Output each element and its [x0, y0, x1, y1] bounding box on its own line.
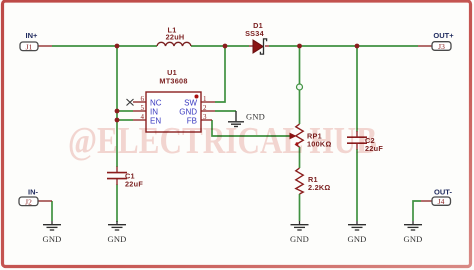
- svg-text:@ELECTRICAL HUB: @ELECTRICAL HUB: [68, 120, 377, 162]
- capacitor C1: [107, 167, 143, 189]
- svg-text:6: 6: [141, 95, 145, 103]
- pin stubs (dark red): [38, 46, 432, 201]
- svg-text:J1: J1: [26, 42, 33, 51]
- junction at EN pin branch: [115, 118, 120, 123]
- wire J4 to ground: [413, 201, 421, 221]
- connector J4: [432, 188, 452, 207]
- svg-text:1: 1: [203, 95, 207, 103]
- svg-text:J2: J2: [25, 197, 32, 206]
- inductor L1: [157, 26, 191, 47]
- ground symbol (C1): [108, 221, 126, 230]
- wire RP1 branch: [299, 46, 301, 124]
- svg-text:GND: GND: [107, 234, 126, 244]
- ground symbol (J2): [43, 221, 61, 230]
- wire to IN pin: [117, 110, 133, 112]
- connector J1: [20, 31, 38, 51]
- svg-text:IN+: IN+: [26, 31, 39, 40]
- ground symbol (C2): [348, 221, 366, 230]
- svg-text:SW: SW: [184, 99, 197, 108]
- ground symbol (J4): [404, 221, 422, 230]
- svg-text:NC: NC: [150, 99, 162, 108]
- svg-text:5: 5: [141, 104, 145, 112]
- svg-text:2: 2: [203, 104, 207, 112]
- wire main top rail: [52, 46, 421, 222]
- ground symbol (U1 pin 2): [228, 111, 244, 127]
- svg-text:22uF: 22uF: [125, 180, 143, 189]
- svg-text:GND: GND: [179, 108, 197, 117]
- svg-text:22uH: 22uH: [166, 33, 185, 42]
- junction at IN pin branch: [115, 109, 120, 114]
- wire FB to RP1 wiper: [212, 120, 290, 136]
- svg-text:GND: GND: [347, 234, 366, 244]
- junction at L1 / SW branch: [223, 44, 228, 49]
- junction at input rail / C1 branch: [115, 44, 120, 49]
- svg-text:IN: IN: [150, 108, 158, 117]
- junction at output rail / RP1 branch: [297, 44, 302, 49]
- connector J2: [19, 188, 39, 207]
- svg-text:2.2KΩ: 2.2KΩ: [308, 183, 331, 192]
- svg-text:OUT-: OUT-: [434, 188, 452, 197]
- ground symbol (R1): [291, 221, 309, 230]
- resistor R1: [296, 168, 331, 194]
- svg-text:GND: GND: [42, 234, 61, 244]
- connector J3: [432, 31, 454, 51]
- wire SW to top rail: [215, 46, 225, 102]
- svg-text:J4: J4: [438, 197, 445, 206]
- svg-text:GND: GND: [403, 234, 422, 244]
- wire C2 branch: [356, 46, 358, 132]
- capacitor C2: [347, 131, 383, 153]
- IC U1 MT3608: [127, 68, 208, 132]
- svg-text:OUT+: OUT+: [433, 31, 454, 40]
- diode D1 SS34: [245, 21, 267, 54]
- svg-text:SS34: SS34: [245, 29, 265, 38]
- svg-text:GND: GND: [290, 234, 309, 244]
- potentiometer RP1: [290, 84, 332, 149]
- wire to EN pin: [117, 119, 133, 121]
- wire left vertical (IN net): [116, 46, 118, 167]
- svg-text:J3: J3: [438, 42, 445, 51]
- wire GND pin to ground: [215, 110, 236, 112]
- no-connect X on pin 6: [127, 99, 134, 106]
- junction at output rail / C2 branch: [355, 44, 360, 49]
- wire J2 to ground: [51, 201, 53, 221]
- svg-text:IN-: IN-: [28, 188, 39, 197]
- svg-text:MT3608: MT3608: [159, 77, 187, 86]
